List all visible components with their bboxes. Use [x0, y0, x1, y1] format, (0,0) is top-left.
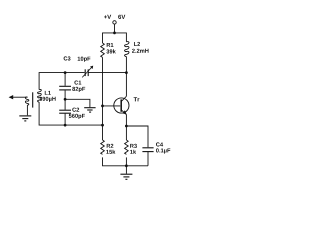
node dot ground rail: [125, 164, 128, 167]
capacitor C1: [59, 73, 71, 100]
node dot base: [101, 105, 104, 108]
label 10pF: [78, 57, 91, 62]
label +V: [104, 15, 111, 19]
wire R3 bottom: [125, 157, 127, 165]
transformer core: [32, 92, 34, 107]
label Tr: [134, 97, 140, 101]
label 82pF: [72, 87, 85, 92]
label C4: [156, 142, 163, 146]
wire to ground: [65, 99, 90, 107]
label L2: [134, 42, 140, 46]
label R2: [107, 144, 114, 148]
transformer primary winding: [25, 97, 28, 105]
label 390uH: [39, 97, 55, 102]
label 0.1uF: [156, 148, 170, 153]
resistor R1: [101, 43, 105, 57]
label C1: [74, 81, 81, 85]
wire left rail: [102, 57, 104, 140]
label C3: [64, 56, 71, 60]
label R1: [107, 43, 114, 47]
wire collector rail: [125, 57, 127, 97]
wire: [39, 73, 85, 90]
wire emitter to C4: [126, 126, 148, 147]
wire base: [103, 105, 121, 107]
wire: [13, 96, 28, 98]
wire: [114, 24, 116, 33]
label 39k: [106, 49, 115, 53]
supply terminal +V: [113, 21, 116, 24]
wire bottom rail: [103, 157, 149, 165]
wire R3 top: [125, 126, 127, 140]
capacitor C2: [59, 99, 71, 125]
wire: [39, 102, 102, 125]
capacitor C4: [142, 148, 153, 166]
ground (C1/C2 junction): [84, 108, 95, 112]
node dot C1/C2 junction: [64, 98, 67, 101]
wire ground stub: [125, 166, 127, 174]
label C2: [72, 108, 79, 112]
label 1k: [130, 150, 136, 154]
label 560pF: [69, 114, 85, 119]
input arrow: [9, 95, 28, 99]
resistor R2: [101, 140, 105, 154]
node dot tank bottom / base rail: [101, 124, 104, 127]
node dot emitter: [125, 125, 128, 128]
transistor Tr: [114, 96, 129, 126]
node dot collector/tank: [125, 71, 128, 74]
label 2.2mH: [132, 49, 149, 53]
label L1: [45, 91, 51, 95]
variable capacitor C3: [82, 66, 126, 78]
resistor R3: [125, 140, 129, 154]
inductor L1 (secondary): [38, 89, 42, 102]
label 15k: [106, 150, 115, 154]
node dot C2 bottom: [64, 124, 67, 127]
node dot supply: [113, 32, 116, 35]
label 6V: [118, 15, 125, 19]
wire top rail: [103, 33, 127, 43]
label R3: [130, 144, 137, 148]
ground (input): [19, 116, 31, 121]
inductor L2: [125, 42, 129, 57]
wire: [26, 105, 28, 115]
ground (bottom): [120, 174, 132, 179]
node dot tank top / C1: [64, 71, 67, 74]
